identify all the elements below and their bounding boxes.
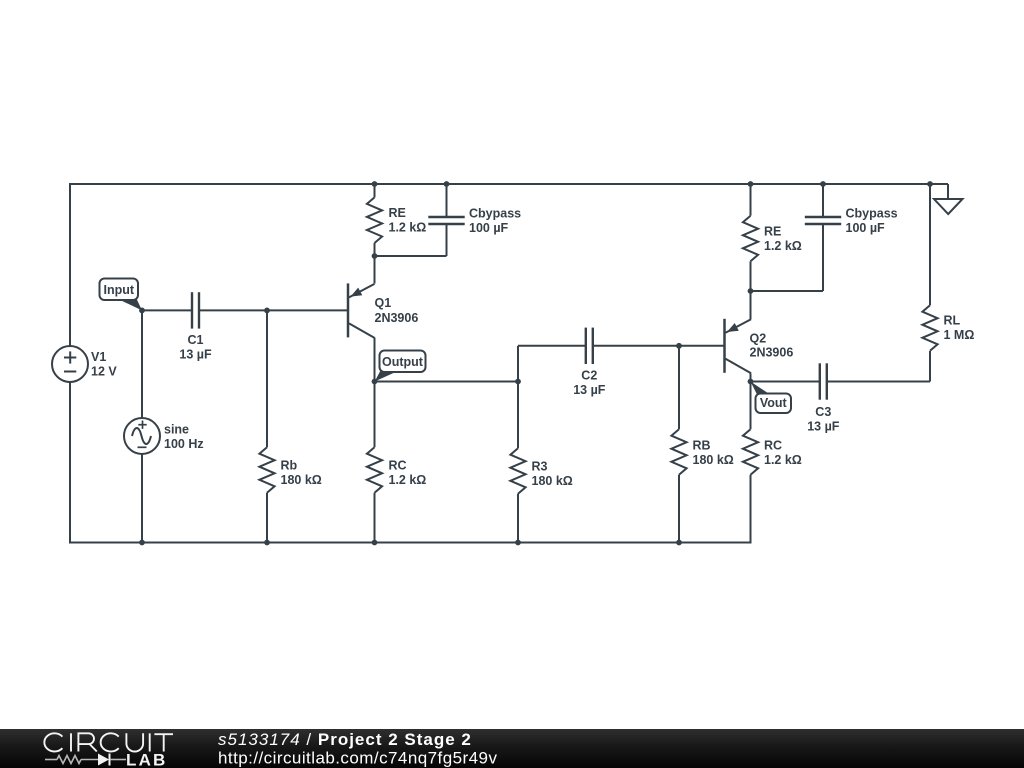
svg-text:C1: C1 (188, 333, 204, 347)
logo text LAB (126, 751, 168, 768)
node label Input (100, 279, 143, 311)
label sine (164, 423, 204, 452)
wire RL bottom (929, 351, 931, 382)
wire bottom rail (69, 542, 751, 544)
wire R3 to bottom rail (517, 494, 519, 543)
wire rail to RE2 (750, 184, 752, 216)
resistor RL 1M (922, 305, 937, 351)
capacitor C2 13 uF (586, 328, 593, 364)
label RC1 (389, 459, 427, 488)
resistor RC 1.2k stage2 (743, 429, 758, 475)
wire input node to C1 (142, 309, 192, 311)
svg-text:sine: sine (164, 423, 189, 437)
label Cbypass2 (846, 207, 898, 236)
svg-text:1.2 kΩ: 1.2 kΩ (764, 239, 802, 253)
wire left rail upper (69, 183, 71, 346)
wire RE2 to node (750, 261, 752, 291)
capacitor Cbypass 100 uF stage1 (428, 217, 464, 224)
wire emitter2 row (751, 290, 824, 292)
svg-text:V1: V1 (91, 350, 106, 364)
svg-text:s5133174 / Project 2 Stage 2: s5133174 / Project 2 Stage 2 (218, 730, 472, 749)
svg-text:RC: RC (764, 439, 782, 453)
resistor RE 1.2k stage1 (367, 197, 382, 243)
resistor Rb 180k (259, 447, 274, 493)
footer bar background (0, 729, 1024, 768)
svg-text:180 kΩ: 180 kΩ (532, 474, 573, 488)
wire rail to RE1 (374, 184, 376, 197)
svg-text:2N3906: 2N3906 (375, 311, 419, 325)
wire emitter Q2 up (750, 291, 752, 319)
svg-text:1 MΩ: 1 MΩ (944, 328, 975, 342)
wire RC2 to bottom rail (750, 475, 752, 544)
node label Output (375, 351, 426, 382)
svg-text:C3: C3 (815, 405, 831, 419)
wire collector Q2 down (750, 373, 752, 381)
svg-text:180 kΩ: 180 kΩ (693, 453, 734, 467)
svg-text:LAB: LAB (126, 751, 168, 768)
wire top rail (70, 183, 948, 185)
label RB (693, 439, 734, 468)
label C1 (179, 333, 212, 362)
capacitor C1 13 uF (192, 292, 199, 328)
svg-text:RB: RB (693, 439, 711, 453)
wire Vout node to RC2 (750, 382, 752, 430)
node label Vout (751, 382, 792, 414)
svg-text:R3: R3 (532, 460, 548, 474)
wire C2 to Q2 base (593, 345, 724, 347)
svg-text:Rb: Rb (281, 459, 298, 473)
label RL (944, 314, 975, 343)
voltage source V1 12 V (52, 346, 88, 382)
wire sine to bottom rail (141, 454, 143, 543)
wire C2 row left (518, 345, 586, 347)
wire left rail lower (69, 382, 71, 543)
wire node518 up (517, 346, 519, 382)
transistor Q2 2N3906 (725, 319, 752, 374)
transistor Q1 2N3906 (348, 283, 375, 338)
svg-text:100 µF: 100 µF (469, 221, 509, 235)
resistor R3 180k (510, 448, 525, 494)
logo wordmark CIRCUIT (44, 733, 173, 751)
svg-text:100 µF: 100 µF (846, 221, 886, 235)
svg-text:1.2 kΩ: 1.2 kΩ (389, 221, 427, 235)
footer url (218, 749, 497, 768)
wire C1 to Q1 base (199, 309, 347, 311)
wire RE1 to emitter node (374, 243, 376, 256)
wire output node to RC1 (374, 382, 376, 448)
wire collector Q1 to output node (374, 338, 376, 382)
wire RB top (678, 346, 680, 429)
capacitor C3 13 uF (820, 363, 827, 399)
svg-text:Cbypass: Cbypass (469, 207, 521, 221)
wire node518 down to R3 (517, 382, 519, 449)
svg-text:2N3906: 2N3906 (750, 346, 794, 360)
wire C3 to RL (827, 381, 930, 383)
label RC2 (764, 439, 802, 468)
label Q1 (375, 296, 419, 325)
wire output row (375, 381, 519, 383)
wire RL top (929, 184, 931, 305)
footer title (218, 730, 472, 749)
logo resistor-diode symbol (45, 754, 126, 766)
svg-text:12 V: 12 V (91, 365, 117, 379)
label Q2 (750, 332, 794, 360)
label R3 (532, 460, 573, 489)
ground (934, 199, 963, 214)
svg-text:13 µF: 13 µF (573, 383, 606, 397)
wire emitter node row (375, 255, 447, 257)
wire input branch to sine (141, 310, 143, 418)
svg-text:Q1: Q1 (375, 296, 392, 310)
resistor RC 1.2k stage1 (367, 447, 382, 493)
capacitor Cbypass 100 uF stage2 (805, 217, 841, 224)
svg-text:Input: Input (103, 283, 134, 297)
wire Vout to C3 (751, 381, 821, 383)
label RE2 (764, 225, 802, 254)
svg-text:RE: RE (389, 206, 406, 220)
svg-text:RC: RC (389, 459, 407, 473)
label C2 (573, 368, 606, 397)
AC source sine 100 Hz (124, 418, 160, 454)
wire rail to Cbypass2 (822, 184, 824, 217)
label RE1 (389, 206, 427, 235)
wire Rb to bottom rail (266, 493, 268, 543)
wire RB to bottom rail (678, 475, 680, 543)
wire rail to Cbypass1 (446, 184, 448, 217)
svg-text:100 Hz: 100 Hz (164, 437, 204, 451)
wire emitter Q1 (374, 256, 376, 284)
label C3 (807, 405, 840, 434)
wire RC1 to bottom rail (374, 493, 376, 543)
resistor RB 180k (671, 429, 686, 475)
wire node to Rb (266, 310, 268, 447)
label V1 (91, 350, 117, 379)
resistor RE 1.2k stage2 (743, 216, 758, 262)
svg-text:13 µF: 13 µF (179, 347, 212, 361)
svg-text:RE: RE (764, 225, 781, 239)
svg-text:1.2 kΩ: 1.2 kΩ (389, 473, 427, 487)
svg-text:Vout: Vout (760, 396, 788, 410)
svg-text:13 µF: 13 µF (807, 420, 840, 434)
label Rb (281, 459, 322, 488)
svg-text:Q2: Q2 (750, 332, 767, 346)
svg-text:180 kΩ: 180 kΩ (281, 473, 322, 487)
svg-text:RL: RL (944, 314, 961, 328)
svg-text:C2: C2 (581, 368, 597, 382)
wire Cbypass1 to emitter row (446, 224, 448, 256)
wire Cbypass2 down (822, 224, 824, 291)
wire to ground (930, 184, 948, 199)
svg-text:Cbypass: Cbypass (846, 207, 898, 221)
svg-text:http://circuitlab.com/c74nq7fg: http://circuitlab.com/c74nq7fg5r49v (218, 749, 497, 768)
label Cbypass1 (469, 207, 521, 236)
svg-text:Output: Output (382, 355, 424, 369)
svg-text:1.2 kΩ: 1.2 kΩ (764, 453, 802, 467)
